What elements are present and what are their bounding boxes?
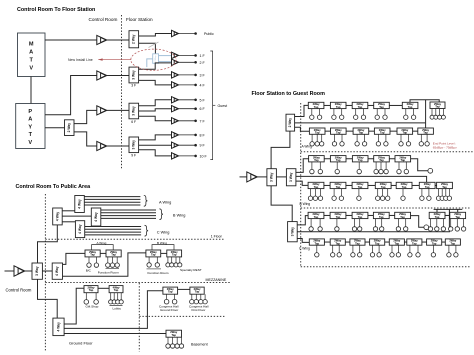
C-wing riser cable 1 <box>85 226 141 228</box>
outlet group line 1 <box>106 268 120 270</box>
B-wing riser cable 4 <box>101 217 156 219</box>
svg-text:Control Room: Control Room <box>89 17 118 22</box>
wire row4 segment 4 <box>391 184 396 186</box>
wire P to 4-way M <box>42 270 52 272</box>
wire row4 segment 2 <box>346 184 352 186</box>
control-room amplifier A2 <box>97 71 107 80</box>
svg-text:Tap: Tap <box>412 242 417 246</box>
wire F1 to Public amp <box>139 34 172 37</box>
svg-text:C Wing: C Wing <box>299 246 310 250</box>
svg-text:Tap: Tap <box>379 215 384 219</box>
tap box row1.3 with outlets <box>352 102 368 119</box>
C-wing 3-way splitter <box>288 222 298 242</box>
svg-text:Tap: Tap <box>195 290 200 294</box>
svg-text:Floor Station: Floor Station <box>126 17 153 22</box>
4-way splitter M (mezzanine) <box>52 263 62 279</box>
svg-text:2 F: 2 F <box>200 61 206 65</box>
A-wing riser cable 4 <box>84 204 140 206</box>
svg-text:Tap: Tap <box>402 185 407 189</box>
new install 2-way splitter (blue) <box>153 54 159 64</box>
svg-text:Tap: Tap <box>380 131 385 135</box>
riser P up to 1F splitter <box>38 225 58 263</box>
tap box row4.2 with outlets <box>330 182 346 200</box>
3-way splitter P <box>32 263 42 279</box>
dashed mezzanine line <box>45 282 230 284</box>
dashed 1 Floor line <box>45 238 225 240</box>
function tap FR4 <box>166 250 182 267</box>
dashed control-room boundary (public) <box>44 194 46 352</box>
svg-text:Tap: Tap <box>335 242 340 246</box>
A-wing riser cable 1 <box>84 196 140 198</box>
tap box row5.4 with outlets <box>373 212 389 231</box>
wire F2 to 3F amp <box>139 74 172 76</box>
tap box row6.1 with outlets <box>309 239 324 257</box>
wire row6 segment 2 <box>345 241 350 243</box>
C-wing riser cable 3 <box>85 231 141 233</box>
svg-text:Tap: Tap <box>336 158 341 162</box>
feed arrow 7 F <box>179 120 197 123</box>
feed arrow 3 F <box>179 74 197 77</box>
svg-text:Public: Public <box>204 32 214 36</box>
wire row5 segment 1 <box>324 214 330 216</box>
row5 end outlet <box>424 225 429 230</box>
svg-text:Tap: Tap <box>381 185 386 189</box>
svg-text:B/C: B/C <box>86 269 92 273</box>
wire PAYTV to 2-way splitter <box>45 127 65 129</box>
svg-text:4 Way: 4 Way <box>56 322 60 332</box>
svg-text:Tap: Tap <box>423 131 428 135</box>
public-area amplifier <box>14 266 25 277</box>
PAYTV head-end unit <box>16 104 45 149</box>
svg-text:New Install Line: New Install Line <box>68 58 93 62</box>
long feed GB to row4 tail <box>296 176 427 182</box>
svg-text:Tap: Tap <box>336 131 341 135</box>
svg-text:Tap: Tap <box>358 215 363 219</box>
svg-text:Tap: Tap <box>403 131 408 135</box>
svg-text:Tap: Tap <box>401 158 406 162</box>
svg-text:3 Way: 3 Way <box>270 172 274 182</box>
wire splitter to amp A4 <box>74 132 97 146</box>
svg-text:10 F: 10 F <box>200 154 208 158</box>
wire amp A4 to 3-way box F4 <box>107 145 129 147</box>
tap box row6.8 with outlets <box>445 239 460 257</box>
wire row5 segment 3 <box>368 214 374 216</box>
tap box row6.2 with outlets <box>330 239 345 257</box>
floor amplifier 1 F <box>172 52 179 58</box>
tap box row5.2 with outlets <box>330 212 346 231</box>
svg-text:3 F: 3 F <box>200 73 206 77</box>
tap box row5-tail.2 with outlets <box>449 212 466 231</box>
dashed line above basement <box>139 315 225 317</box>
floor amplifier 10 F <box>172 153 179 159</box>
svg-text:Tap: Tap <box>425 185 430 189</box>
wire row6 segment 1 <box>324 241 330 243</box>
wire L1 to 4-way TA <box>62 210 75 212</box>
C-wing riser cable 2 <box>85 228 141 230</box>
svg-text:Tap: Tap <box>315 242 320 246</box>
svg-text:Guest: Guest <box>218 104 228 108</box>
dashed boundary control room / floor station <box>121 15 123 170</box>
svg-text:3 F: 3 F <box>131 84 136 88</box>
svg-text:Floor Station to Guest Room: Floor Station to Guest Room <box>252 91 326 97</box>
row3 tail <box>411 159 428 171</box>
tap Congress Hall Ground <box>163 287 178 304</box>
wire amp to 3-way GA <box>257 176 267 178</box>
feed to function cluster 2 <box>63 253 146 276</box>
svg-text:Gift Shop: Gift Shop <box>86 304 99 308</box>
wire F2 to 4F amp <box>139 80 172 85</box>
A-wing riser cable 2 <box>84 198 140 200</box>
wire FR3 to FR4 <box>161 252 167 254</box>
svg-text:3 Way: 3 Way <box>132 106 136 116</box>
wire row5 segment 2 <box>346 214 352 216</box>
wire into public amp <box>5 270 15 272</box>
tap Gift Shop <box>84 285 98 304</box>
floor amplifier 4 F <box>172 82 179 88</box>
svg-text:6 F: 6 F <box>131 120 136 124</box>
svg-text:Tap: Tap <box>172 253 177 257</box>
feed arrow 8 F <box>179 134 197 137</box>
svg-text:Specialty REST: Specialty REST <box>180 268 202 272</box>
svg-text:4 Way: 4 Way <box>55 266 59 276</box>
wire FR1 to FR2 <box>100 252 106 254</box>
B-wing riser cable 1 <box>101 209 156 211</box>
dashed border A/B wings <box>301 151 474 153</box>
4-way splitter L1 (1st floor) <box>53 208 63 225</box>
feed C-wing row 6 <box>297 239 309 243</box>
floor amplifier 6 F <box>172 106 179 112</box>
long feed C to row5 tail <box>297 209 449 231</box>
svg-text:8 F: 8 F <box>200 133 206 137</box>
tap box row5-tail.1 with outlets <box>428 212 445 231</box>
wire MATV to PAYTV <box>30 77 32 104</box>
blue wire new splitter to 2F amp <box>159 61 172 63</box>
svg-text:B Wing: B Wing <box>173 212 186 217</box>
floor-station 2-way box F1 <box>129 31 139 48</box>
feed arrow Public <box>179 32 197 35</box>
svg-text:4 Way: 4 Way <box>77 199 81 209</box>
svg-text:Control Room To Public Area: Control Room To Public Area <box>16 184 92 190</box>
wire into guest-room amp <box>240 176 247 178</box>
svg-text:Tap: Tap <box>336 215 341 219</box>
function tap FR3 <box>146 250 161 267</box>
tap box row2.4 with outlets <box>374 128 390 146</box>
row3 end outlet <box>428 168 433 173</box>
wire L1 to 4-way TB <box>62 215 91 217</box>
svg-text:3 Way: 3 Way <box>35 266 39 276</box>
feed to congress taps <box>64 291 163 329</box>
wire row5-tail segment 1 <box>445 214 450 216</box>
feed A-wing row 2 <box>295 127 310 131</box>
3-way splitter GB (B wing) <box>286 169 296 186</box>
A-wing riser cable 3 <box>84 201 140 203</box>
svg-text:1 Floor: 1 Floor <box>211 234 223 238</box>
svg-text:Tap: Tap <box>359 131 364 135</box>
wire F4 to 9F amp <box>139 144 172 146</box>
svg-text:A Wing: A Wing <box>159 199 171 204</box>
wire MATV to amp A1 <box>45 39 97 41</box>
drop to row5 box7 <box>457 209 459 212</box>
wire row6 segment 4 <box>385 241 390 243</box>
wire row4 segment 3 <box>368 184 375 186</box>
wire row6 segment 7 <box>442 241 446 243</box>
4-way splitter TA (A wing) <box>75 196 85 213</box>
svg-text:Tap: Tap <box>314 158 319 162</box>
svg-text:Tap: Tap <box>451 242 456 246</box>
feed to gift shop tap <box>64 288 84 324</box>
wire row6 segment 3 <box>365 241 370 243</box>
grey leader mark <box>149 42 159 48</box>
wire row2 segment 3 <box>369 130 375 132</box>
feed B-wing row 4 <box>296 181 308 185</box>
brace A Wing <box>144 195 148 206</box>
svg-text:Lobby: Lobby <box>113 306 122 310</box>
feed arrow 4 F <box>179 84 197 87</box>
svg-text:Ground Floor: Ground Floor <box>69 340 93 345</box>
svg-text:Tap: Tap <box>315 131 320 135</box>
svg-text:4 Way: 4 Way <box>94 212 98 222</box>
svg-text:Function Room: Function Room <box>98 270 119 274</box>
svg-text:Tap: Tap <box>395 242 400 246</box>
tap box row1.4 with outlets <box>374 102 390 119</box>
drop to row5 box6 <box>436 209 438 212</box>
tap box row2.3 with outlets <box>353 128 369 146</box>
svg-text:Tap: Tap <box>358 185 363 189</box>
dashed wing border vertical <box>300 103 302 267</box>
wire row3 segment 3 <box>368 158 374 160</box>
svg-text:Tap: Tap <box>379 158 384 162</box>
svg-text:1 F: 1 F <box>200 54 206 58</box>
svg-text:Tap: Tap <box>114 288 119 292</box>
wire row3 segment 4 <box>389 158 395 160</box>
row5 tail down <box>411 216 425 228</box>
tap box row2.5 with outlets <box>397 128 413 146</box>
svg-text:Tap: Tap <box>358 105 363 109</box>
brace C Wing <box>145 225 149 236</box>
svg-text:Tap: Tap <box>336 105 341 109</box>
svg-text:9 F: 9 F <box>131 154 136 158</box>
floor-station 3-way box F2 <box>129 67 139 83</box>
wire row6 segment 6 <box>422 241 427 243</box>
svg-text:Tap: Tap <box>314 215 319 219</box>
wire splitter to amp A3 <box>74 110 97 123</box>
svg-text:4 F: 4 F <box>200 83 206 87</box>
svg-text:MEZZANINE: MEZZANINE <box>206 278 227 282</box>
svg-text:Tap: Tap <box>435 105 440 109</box>
svg-text:4 Way: 4 Way <box>55 212 59 222</box>
riser GA down to C-wing 3-way <box>271 186 292 222</box>
riser P down to ground-floor splitter <box>38 279 58 318</box>
svg-text:2 Way: 2 Way <box>67 123 71 133</box>
tap box row4.6 with outlets <box>419 182 435 200</box>
wire F3 to 5F amp <box>139 100 172 106</box>
tap Congress Hall First <box>190 287 208 304</box>
tap box row3.5 with outlets <box>395 155 411 173</box>
floor amplifier 5 F <box>172 97 179 103</box>
svg-text:Tap: Tap <box>379 105 384 109</box>
svg-text:Tap: Tap <box>151 253 156 257</box>
guest riser amplifier <box>247 172 257 182</box>
tap box row3.4 with outlets <box>374 155 390 173</box>
svg-text:Tap: Tap <box>336 185 341 189</box>
wire row6 segment 5 <box>404 241 406 243</box>
blue wire stub to box F2 <box>147 59 153 67</box>
svg-text:Basement: Basement <box>191 342 208 346</box>
wire F4 to 8F amp <box>139 135 172 140</box>
svg-text:3 Way: 3 Way <box>132 70 136 80</box>
svg-text:Tap: Tap <box>355 242 360 246</box>
svg-text:Tap: Tap <box>90 253 95 257</box>
wire L1 to 4-way TC <box>62 221 75 223</box>
B-wing riser cable 3 <box>101 215 156 217</box>
blue wire new splitter to 1F amp <box>159 55 172 57</box>
svg-text:2 Way: 2 Way <box>155 55 157 62</box>
tap box row4.3 with outlets <box>352 182 368 200</box>
long feed A-wing to row1 tail <box>295 122 426 124</box>
tap box row2.1 with outlets <box>309 128 325 146</box>
wire row2 segment 2 <box>346 130 353 132</box>
svg-text:65dBµv - 75dBµv: 65dBµv - 75dBµv <box>433 145 457 149</box>
tap box row6.3 with outlets <box>350 239 365 257</box>
floor amplifier 8 F <box>172 132 179 138</box>
tap box row6.4 with outlets <box>370 239 385 257</box>
wire amp A1 to 2-way box F1 <box>107 39 129 41</box>
dashed border B/C wings <box>301 207 471 209</box>
3-way splitter GA <box>267 169 277 186</box>
svg-text:C Wing: C Wing <box>157 229 170 234</box>
svg-text:B Wing: B Wing <box>157 241 167 245</box>
svg-text:3 Way: 3 Way <box>132 140 136 150</box>
outlet group line 2 <box>147 268 162 270</box>
svg-text:A Wing: A Wing <box>97 241 107 245</box>
svg-text:2 Way: 2 Way <box>132 34 136 44</box>
feed arrow 6 F <box>179 107 197 110</box>
function tap FR1 <box>85 250 100 267</box>
svg-text:Tap: Tap <box>168 290 173 294</box>
feed arrow 2 F <box>179 61 197 64</box>
tap box row1.2 with outlets <box>330 102 346 119</box>
red dashed ellipse around new install <box>131 49 176 70</box>
wire row1 segment 4 <box>389 104 402 106</box>
control-room amplifier A4 <box>97 141 107 150</box>
svg-text:Tap: Tap <box>314 105 319 109</box>
riser GA up to A-wing 2-way <box>271 131 290 169</box>
tap box row5.3 with outlets <box>352 212 368 231</box>
wire amp A3 to 3-way box F3 <box>107 109 129 111</box>
A-wing 2-way splitter <box>286 114 295 131</box>
tap Basement <box>166 330 184 348</box>
floor-station 3-way box F3 <box>129 103 139 119</box>
hop row1 box5 to box6 <box>410 100 439 103</box>
drop from hop line to row2 box6 <box>425 100 427 128</box>
wire row2 segment 1 <box>325 130 331 132</box>
svg-text:3 Way: 3 Way <box>290 227 294 237</box>
MATV head-end unit <box>18 33 46 77</box>
feed A-wing row 1 <box>295 105 309 116</box>
feed to function cluster 1 <box>63 253 86 264</box>
wire row4 segment 1 <box>324 184 330 186</box>
tap box row5.1 with outlets <box>308 212 324 231</box>
bracket label B Wing over cluster 2 <box>152 245 174 250</box>
wire F1 to new 2-way splitter <box>139 43 156 54</box>
svg-text:2 Way: 2 Way <box>288 118 292 128</box>
tap box row6.5 with outlets <box>389 239 404 257</box>
C-wing riser cable 4 <box>85 234 141 236</box>
wire F3 to 6F amp <box>139 109 172 111</box>
svg-text:Tap: Tap <box>314 185 319 189</box>
floor amplifier 2 F <box>172 59 179 65</box>
svg-text:7 F: 7 F <box>200 119 206 123</box>
wire F2 to 2F amp <box>139 63 172 69</box>
tap box row1.1 with outlets <box>308 102 324 119</box>
tap box row4.7 with outlets <box>436 182 452 200</box>
tap Lobby <box>109 285 124 304</box>
svg-text:First Floor: First Floor <box>192 308 206 312</box>
B-wing riser cable 2 <box>101 212 156 214</box>
control-room amplifier A3 <box>97 106 107 115</box>
svg-text:Tap: Tap <box>171 333 176 337</box>
row5 tail top bus <box>434 208 463 210</box>
feed C-wing row 5 <box>297 216 308 225</box>
floor amplifier 7 F <box>172 118 179 124</box>
wire gift to lobby tap <box>98 287 109 289</box>
svg-text:Tap: Tap <box>442 185 447 189</box>
svg-text:Ground Floor: Ground Floor <box>160 308 178 312</box>
svg-text:9 F: 9 F <box>200 144 206 148</box>
floor amplifier 9 F <box>172 142 179 148</box>
svg-text:Tap: Tap <box>435 215 440 219</box>
feed arrow 5 F <box>179 99 197 102</box>
4-way splitter G (ground floor) <box>53 318 64 336</box>
control-room amplifier A1 <box>97 35 107 44</box>
svg-text:Tap: Tap <box>358 158 363 162</box>
dashed border bottom of C wing <box>301 266 471 268</box>
wire row2 segment 5 <box>413 130 418 132</box>
wire row1 segment 1 <box>324 104 331 106</box>
tap box row3.2 with outlets <box>330 155 346 173</box>
feed arrow 1 F <box>179 54 197 57</box>
wire amp A2 to 3-way box F2 <box>107 75 129 77</box>
tap box row1.6 with 4 outlets <box>430 102 445 119</box>
wire GA to 3-way GB <box>276 176 286 178</box>
svg-text:Control Room To Floor Station: Control Room To Floor Station <box>17 7 95 13</box>
svg-text:5 F: 5 F <box>200 98 206 102</box>
2-way splitter (control room) <box>65 120 75 136</box>
wire congress 1 to 2 <box>178 288 190 290</box>
svg-text:6 F: 6 F <box>200 107 206 111</box>
Guest bracket <box>210 51 212 160</box>
svg-text:Tap: Tap <box>375 242 380 246</box>
wire row4 segment 5 <box>412 184 419 186</box>
wire amp to 3-way P <box>25 270 32 272</box>
svg-text:B Wing: B Wing <box>300 202 311 206</box>
wire row3 segment 1 <box>324 158 330 160</box>
feed arrow 9 F <box>179 144 197 147</box>
svg-text:3 Way: 3 Way <box>289 172 293 182</box>
wire row1 segment 2 <box>346 104 352 106</box>
svg-text:Tap: Tap <box>455 215 460 219</box>
tap box row4.1 with outlets <box>308 182 324 200</box>
function tap FR2 <box>106 250 122 267</box>
tap box row6.6 with outlets <box>407 239 422 257</box>
lobby group line <box>110 304 123 306</box>
bracket label A Wing over cluster 1 <box>92 245 114 250</box>
wire row4 segment 6 <box>435 184 437 186</box>
wire row5 segment 4 <box>389 214 395 216</box>
tap box row2.2 with outlets <box>331 128 347 146</box>
4-way splitter TB (B wing) <box>91 208 101 226</box>
svg-text:Control Room: Control Room <box>6 288 32 293</box>
